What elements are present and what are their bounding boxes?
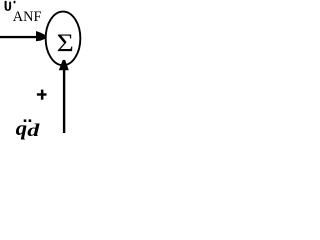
wire: horizontal input line (0, 36, 37, 38)
node label u' (input signal glyph) (5, 1, 16, 11)
svg-text:ANF: ANF (13, 9, 42, 25)
wire: vertical input line (63, 69, 65, 133)
svg-text:Σ: Σ (57, 30, 74, 57)
summing junction (ellipse) (46, 12, 81, 66)
svg-text:d: d (27, 121, 40, 141)
prime tick (14, 1, 16, 4)
arrowhead into summing node (left) (36, 31, 45, 41)
arrowhead into summing node (bottom) (59, 60, 69, 70)
plus sign (37, 90, 47, 100)
label qdd (desired acceleration, bold italic) (16, 119, 41, 141)
